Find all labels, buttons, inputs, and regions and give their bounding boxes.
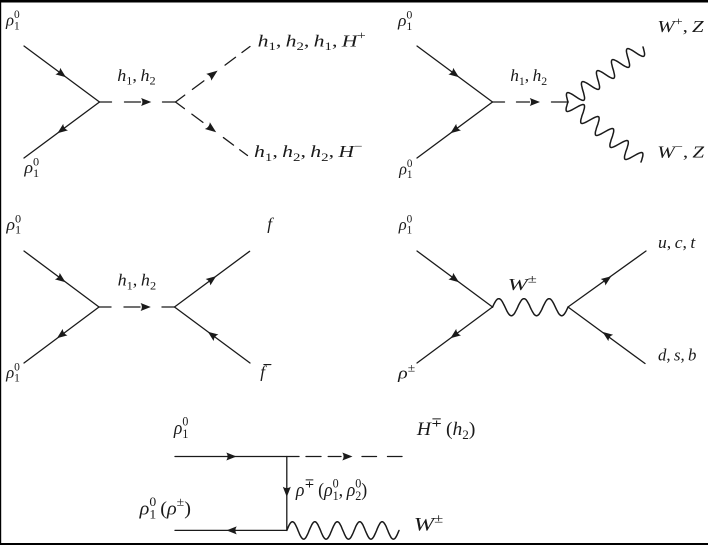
svg-text:h1, h2, h1, H+: h1, h2, h1, H+ (258, 29, 366, 53)
svg-text:ρ01: ρ01 (397, 9, 413, 33)
wire: D4 outgoing d,s,b arrow (603, 332, 614, 341)
wire: D4 outgoing u,c,t arrow (601, 276, 612, 285)
wire: D1 incoming lower arrow (57, 124, 68, 133)
boson: D2 upper wavy W+,Z (566, 47, 644, 102)
label d1_rho_top (5, 9, 20, 32)
boson: D5 W wavy (287, 522, 399, 539)
svg-text:ρ±: ρ± (397, 361, 415, 382)
svg-text:W±: W± (414, 512, 443, 535)
wire: D1 outgoing lower arrow (205, 122, 216, 132)
wire: D5 top arrow (226, 453, 236, 461)
label d3_rho_bot (5, 362, 20, 385)
svg-text:f: f (267, 214, 274, 233)
label d5_rho_b (139, 494, 191, 521)
boson: D2 lower wavy W-,Z (566, 102, 643, 162)
wire: D1 outgoing upper dashed scalar (176, 95, 185, 102)
label d1_h12 (117, 65, 156, 87)
wire: D3 outgoing f arrow (206, 276, 217, 285)
wire: D3 incoming lower arrow (57, 329, 68, 338)
wire: D4 incoming rho0 line (417, 251, 493, 307)
wire: D2 incoming upper arrow (448, 68, 459, 77)
label d5_rho_top (173, 414, 188, 441)
label fbar_lab (260, 363, 267, 382)
svg-text:f: f (260, 363, 267, 382)
wire: D4 incoming rho+- arrow (450, 329, 461, 338)
svg-text:ρ01: ρ01 (5, 362, 20, 385)
wire: D1 outgoing upper arrow (206, 71, 217, 81)
propagator D3 arrow (141, 303, 151, 311)
wire: D5 bottom rho line (175, 529, 287, 531)
svg-text:ρ01: ρ01 (398, 158, 413, 181)
label uct (658, 233, 696, 252)
wire: D5 top rho line (175, 456, 299, 458)
wire: D4 outgoing u,c,t line (568, 251, 646, 307)
svg-text:ρ∓ (ρ01, ρ02): ρ∓ (ρ01, ρ02) (295, 476, 367, 503)
label d1_out_top (258, 29, 366, 53)
wire: D4 incoming rho0 arrow (448, 273, 459, 282)
propagator D1 h1,h2 dashed (100, 101, 112, 103)
label d5_w (414, 512, 443, 535)
label d2_rho_bot (398, 158, 413, 181)
left border bar (0, 0, 1, 545)
label d1_out_bot (254, 139, 363, 163)
fbar overline (264, 364, 271, 366)
svg-text:h1, h2, h2, H−: h1, h2, h2, H− (254, 139, 363, 163)
svg-text:h1, h2: h1, h2 (117, 65, 156, 87)
label d5_H (416, 415, 475, 442)
label rho_pm (397, 361, 415, 382)
wire: D1 incoming upper rho line (24, 46, 100, 102)
svg-text:ρ01: ρ01 (5, 212, 21, 237)
propagator D3 h1,h2 dashed (99, 306, 111, 308)
wire: D2 incoming upper rho line (417, 46, 493, 102)
wire: D3 incoming upper rho line (24, 251, 99, 307)
wire: D3 incoming lower rho line (24, 307, 99, 363)
wire: D3 outgoing fbar line (175, 307, 251, 363)
wire: D1 incoming lower rho line (24, 102, 100, 158)
bottom border bar (0, 543, 708, 545)
wire: D1 outgoing lower dashed scalar (176, 102, 185, 109)
label wpz (657, 14, 704, 36)
top border bar (0, 0, 708, 3)
label d4_rho_top (398, 213, 413, 236)
wire: D5 vertical arrow (283, 487, 291, 497)
wire: D2 incoming lower arrow (450, 124, 461, 133)
svg-text:H∓ (h2): H∓ (h2) (416, 415, 475, 442)
wire: D5 bottom arrow (left) (227, 526, 237, 534)
svg-text:W±: W± (508, 273, 537, 294)
label d3_h12 (118, 270, 157, 292)
wire: D1 incoming upper arrow (55, 68, 66, 77)
svg-text:W+, Z: W+, Z (657, 14, 704, 36)
label d2_h12 (510, 66, 547, 88)
label f_lab (267, 214, 274, 233)
label d2_rho_top (397, 9, 413, 33)
wire: D3 incoming upper arrow (55, 273, 66, 282)
svg-text:ρ01 (ρ±): ρ01 (ρ±) (139, 494, 191, 521)
label d3_rho_top (5, 212, 21, 237)
wire: D4 incoming rho+- line (417, 307, 493, 363)
svg-text:ρ01: ρ01 (5, 9, 20, 32)
label dsb (658, 345, 696, 364)
wire: D3 outgoing fbar arrow (208, 332, 219, 341)
svg-text:d, s, b: d, s, b (658, 345, 696, 364)
svg-text:u, c, t: u, c, t (658, 233, 696, 252)
boson: D4 W propagator wavy (493, 299, 569, 316)
label d4_w (508, 273, 537, 294)
label wmz (657, 140, 704, 162)
svg-text:h1, h2: h1, h2 (118, 270, 157, 292)
wire: D5 dashed H line (306, 456, 321, 458)
wire: D3 outgoing f line (175, 251, 250, 307)
wire: D2 incoming lower rho line (417, 102, 493, 158)
svg-text:h1, h2: h1, h2 (510, 66, 547, 88)
wire: D5 vertical rho-+ propagator (286, 457, 288, 531)
svg-text:ρ01: ρ01 (398, 213, 413, 236)
svg-text:ρ01: ρ01 (23, 155, 39, 180)
svg-text:W−, Z: W−, Z (657, 140, 704, 162)
propagator D2 arrow (530, 98, 540, 106)
label d1_rho_bot (23, 155, 39, 180)
wire: D4 outgoing d,s,b line (568, 307, 645, 364)
propagator D2 h1,h2 dashed (493, 101, 505, 103)
svg-text:ρ01: ρ01 (173, 414, 188, 441)
label d5_rho_mp (295, 476, 367, 503)
propagator D1 arrow (141, 98, 151, 106)
wire: D5 dashed H arrow (342, 453, 352, 461)
